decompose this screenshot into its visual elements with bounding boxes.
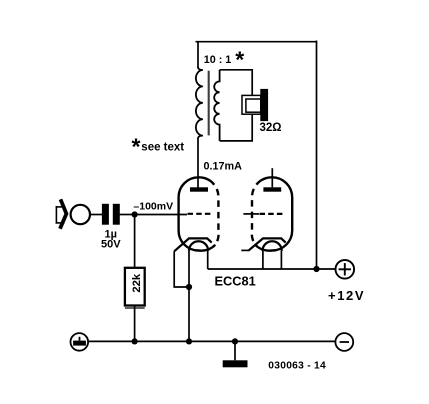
connector input ring (71, 205, 90, 224)
junction supply node (313, 266, 319, 272)
junction earth ground (232, 338, 238, 344)
ground symbol (223, 341, 248, 367)
triode V1b cathode tray (248, 238, 286, 250)
svg-text:32Ω: 32Ω (260, 122, 282, 134)
triode V1a envelope solid (179, 177, 216, 250)
transformer TR1 secondary winding (214, 70, 219, 141)
junction cathode ground (186, 338, 192, 344)
triode V1a grid dashes (188, 213, 213, 215)
wire input to capacitor (90, 214, 103, 216)
wire primary feed (197, 42, 199, 68)
svg-text:see text: see text (141, 142, 184, 154)
wire capacitor to grid node (119, 214, 135, 216)
capacitor C1 right plate (113, 204, 120, 225)
wire heater left lead V1a to ground (188, 251, 190, 342)
wire grid stub V1b (243, 213, 259, 215)
wire secondary loop (220, 70, 253, 141)
svg-text:030063 - 14: 030063 - 14 (268, 361, 326, 372)
triode V1b heater dome (263, 241, 282, 251)
triode V1b envelope dashed (252, 180, 261, 245)
terminal minus (335, 333, 353, 351)
wire heater supply run (208, 268, 336, 270)
resistor R1 bottom accent (125, 307, 145, 309)
connector input plug (56, 199, 67, 228)
wire grid node to resistor (134, 215, 136, 269)
junction cathode-heater node (186, 284, 192, 290)
wire grid lead V1a (135, 214, 187, 216)
triode V1a heater dome (189, 241, 208, 251)
svg-text:+12V: +12V (328, 288, 365, 303)
svg-text:*: * (235, 47, 244, 73)
junction resistor ground (132, 338, 138, 344)
svg-text:ECC81: ECC81 (215, 274, 256, 289)
loudspeaker LS1 box (242, 95, 261, 114)
wire right supply rail (316, 41, 318, 270)
triode V1a cathode tray (174, 238, 212, 251)
junction grid node (132, 211, 138, 217)
wire anode feed left (197, 138, 199, 188)
transformer TR1 primary winding (196, 67, 203, 139)
triode V1a anode bar (190, 187, 208, 191)
resistor R1 body (125, 268, 145, 306)
triode V1b envelope solid (255, 177, 292, 250)
svg-text:–100mV: –100mV (133, 200, 173, 212)
triode V1b grid dashes (260, 213, 284, 215)
wire resistor to ground rail (134, 305, 136, 341)
terminal plus 12V (336, 260, 355, 279)
wire heater lead V1b left (262, 251, 264, 269)
svg-text:0.17mA: 0.17mA (204, 161, 243, 173)
wire top rail (196, 41, 317, 43)
wire cathode stub V1b (241, 249, 248, 251)
terminal ground input (71, 333, 89, 351)
wire anode stub V1b (271, 168, 273, 187)
wire cathode return V1a (174, 251, 189, 287)
loudspeaker LS1 magnet bar (260, 89, 268, 121)
capacitor C1 left plate (102, 204, 109, 225)
svg-text:50V: 50V (101, 239, 121, 251)
transformer TR1 core (208, 71, 210, 136)
loudspeaker LS1 inner box (246, 99, 261, 112)
triode V1a envelope dashed (210, 180, 219, 245)
svg-text:10 : 1: 10 : 1 (204, 54, 232, 66)
svg-text:22k: 22k (131, 273, 143, 293)
triode V1b anode bar (263, 187, 281, 191)
svg-text:*: * (132, 134, 141, 160)
wire heater right lead V1a (207, 251, 209, 269)
wire ground rail (87, 340, 335, 342)
wire heater lead V1b right (280, 251, 282, 269)
